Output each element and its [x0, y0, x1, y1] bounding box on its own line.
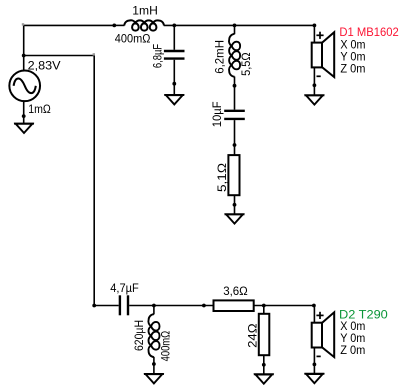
svg-text:3,6Ω: 3,6Ω — [223, 284, 248, 298]
svg-text:24Ω: 24Ω — [245, 323, 259, 348]
svg-text:5,5Ω: 5,5Ω — [239, 52, 253, 76]
svg-text:620µH: 620µH — [132, 320, 146, 351]
svg-text:5,1Ω: 5,1Ω — [215, 163, 229, 192]
svg-text:1mΩ: 1mΩ — [28, 102, 51, 116]
svg-text:2,83V: 2,83V — [28, 59, 61, 73]
svg-text:400mΩ: 400mΩ — [158, 331, 172, 362]
svg-text:4,7µF: 4,7µF — [110, 281, 139, 295]
svg-text:6,8µF: 6,8µF — [150, 44, 164, 68]
svg-text:6,2mH: 6,2mH — [212, 40, 226, 74]
svg-text:400mΩ: 400mΩ — [115, 32, 151, 46]
svg-text:Z 0m: Z 0m — [340, 61, 365, 75]
svg-text:10µF: 10µF — [210, 101, 224, 127]
svg-text:Z 0m: Z 0m — [340, 343, 365, 357]
svg-text:1mH: 1mH — [132, 4, 158, 18]
